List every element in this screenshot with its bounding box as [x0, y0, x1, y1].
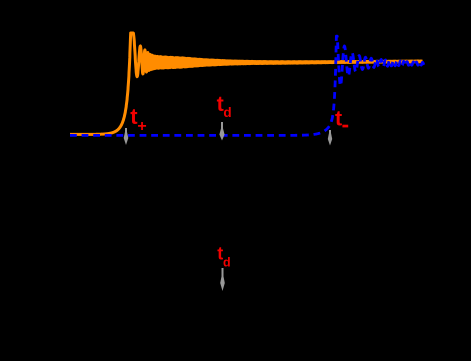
svg-text:t: t	[335, 107, 342, 131]
svg-text:d: d	[223, 255, 231, 269]
orange curve (solid, positive step response with ringing)	[70, 33, 422, 134]
arrow at t_d bottom	[222, 268, 224, 278]
arrow at t_plus	[125, 128, 127, 134]
svg-text:+: +	[137, 118, 146, 135]
svg-text:d: d	[223, 105, 231, 120]
arrow at t_d top	[221, 122, 223, 130]
blue curve (dashed, delayed step response with ringing)	[70, 36, 424, 135]
arrow at t_minus	[329, 130, 331, 135]
